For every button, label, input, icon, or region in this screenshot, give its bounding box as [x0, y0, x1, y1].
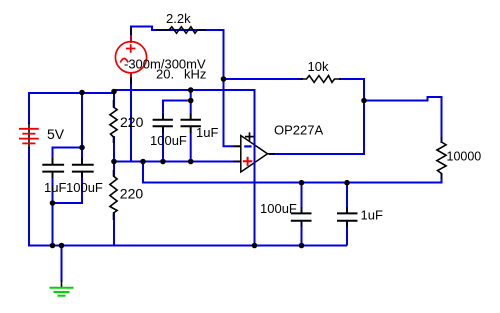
battery V1 5V: [19, 123, 39, 149]
wire: left caps top node from bus: [53, 91, 83, 165]
source V2 sine 300m/300mV: [115, 28, 146, 84]
wire: non-inverting input wire y=161.5: [114, 161, 240, 163]
wire: mid 100uF bottom lead: [162, 126, 164, 162]
node: bottom bus / supply rail: [252, 243, 258, 249]
svg-text:100uF: 100uF: [66, 180, 103, 195]
ground: [50, 280, 74, 296]
resistor R2 10k: [300, 76, 341, 83]
capacitor C6 1uF right: [337, 207, 358, 227]
capacitor C3 100uF middle: [153, 113, 173, 133]
wire: 100uF left top lead: [81, 148, 83, 166]
wire: left caps bottom link: [53, 171, 83, 203]
svg-text:5V: 5V: [47, 126, 65, 142]
node: bus / 220 column: [111, 89, 117, 95]
wire: 10k right lead to output node: [269, 79, 364, 154]
node: bus / mid 1uF: [188, 87, 194, 93]
wire: 220 column upper lead: [113, 90, 115, 108]
node: +input / mid 1uF: [188, 159, 194, 165]
wire: supply bus right segment y=90: [113, 89, 255, 91]
node: left caps top: [79, 145, 85, 151]
wire: left caps bottom node: [52, 171, 54, 246]
wire: mid 1uF bottom lead: [190, 126, 192, 162]
wire: supply bus left segment y=93: [29, 92, 114, 94]
node: +input / mid 100uF: [160, 159, 166, 165]
node: bottom bus / right 100uF: [299, 243, 305, 249]
svg-text:220: 220: [120, 186, 144, 202]
node: output / load branch: [361, 98, 367, 104]
svg-text:1uF: 1uF: [44, 180, 66, 195]
op-amp U1 OP227A: [233, 132, 275, 172]
node: bottom bus / ground: [59, 243, 65, 249]
resistor R1 2.2k: [156, 27, 206, 33]
wire: mid 1uF top lead from bus: [190, 90, 192, 120]
wire: ground stem: [61, 246, 63, 283]
svg-text:10000: 10000: [447, 149, 482, 163]
node: +input / 220 column: [111, 159, 117, 165]
svg-text:1uF: 1uF: [361, 208, 383, 223]
node: left caps bottom: [50, 200, 56, 206]
capacitor C1 1uF left: [42, 158, 64, 178]
wire: load resistor bottom to + input node: [143, 162, 442, 183]
wire: right 100uF leads: [301, 183, 303, 215]
wire: right 1uF leads: [346, 183, 348, 215]
node: load return / right 1uF: [344, 180, 350, 186]
node: mid caps top branch: [188, 98, 194, 104]
wire: mid 100uF top L-link: [163, 101, 191, 121]
node: +input / load return: [140, 159, 146, 165]
svg-text:2.2k: 2.2k: [166, 11, 191, 26]
capacitor C4 1uF middle: [181, 113, 201, 133]
node: load return / right 100uF: [299, 180, 305, 186]
svg-text:10k: 10k: [308, 59, 329, 74]
svg-text:220: 220: [120, 114, 144, 130]
wire: 220 column bottom lead: [113, 212, 115, 246]
wire: top feedback wire left segment (source top to jog): [131, 27, 224, 42]
wire: positive supply rail x=254.5 over op-amp: [254, 89, 256, 246]
wire: battery top lead: [28, 92, 30, 124]
resistor R4 220 lower: [110, 170, 117, 220]
svg-text:100uF: 100uF: [260, 201, 297, 216]
node: bus / left caps branch: [79, 90, 85, 96]
node: feedback 2.2k/10k: [221, 76, 227, 82]
wire: source bottom lead: [130, 73, 132, 162]
svg-text:1uF: 1uF: [196, 125, 218, 140]
capacitor C2 100uF left: [72, 158, 94, 178]
wire: feedback vertical x=223.5 down to inverting input: [224, 29, 241, 146]
svg-text:kHz: kHz: [184, 67, 206, 82]
svg-text:20.: 20.: [156, 67, 174, 82]
resistor R5 10000 load: [437, 137, 446, 179]
wire: battery bottom lead to ground bus: [29, 147, 347, 246]
wire: 220 column middle: [113, 136, 115, 177]
resistor R3 220 upper: [110, 100, 117, 143]
wire: output node to load resistor top: [364, 97, 442, 143]
capacitor C5 100uF right: [291, 207, 312, 227]
node: bottom bus / left caps: [50, 243, 56, 249]
wire: 10k branch from feedback node: [224, 78, 304, 80]
svg-text:OP227A: OP227A: [274, 123, 323, 138]
svg-text:100uF: 100uF: [150, 133, 187, 148]
